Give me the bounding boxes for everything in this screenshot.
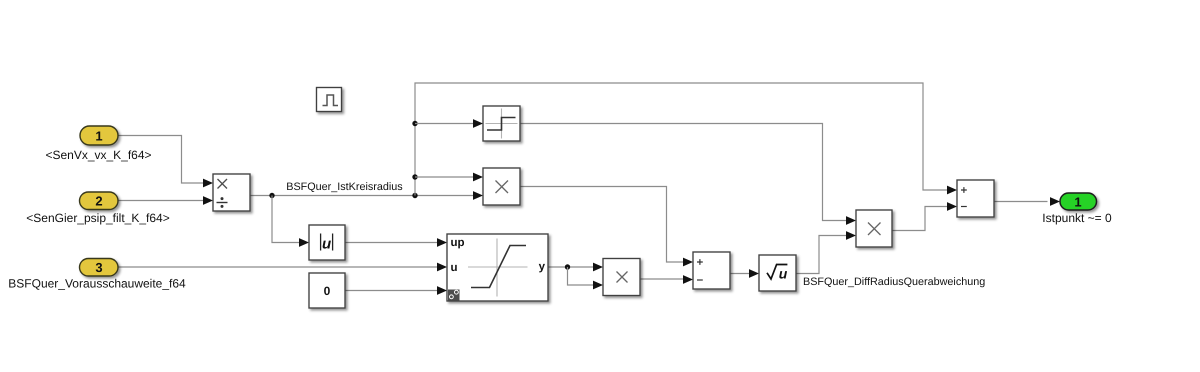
inport 3 (80, 259, 119, 277)
svg-text:1: 1 (95, 129, 102, 144)
outport 1 (1060, 193, 1097, 210)
wire: Abs output to Saturation Dynamic up input (345, 242, 438, 244)
sign block (483, 106, 520, 141)
arrowhead into Product3 lower input (846, 231, 856, 240)
arrowhead into Divide x input (203, 179, 213, 188)
svg-text:1: 1 (1074, 195, 1081, 210)
svg-text:u: u (451, 262, 458, 274)
arrowhead into Sqrt input (749, 269, 759, 278)
wire: branch to Product1 upper input (415, 176, 474, 178)
sqrt block (759, 255, 796, 291)
arrowhead into Sum1 plus input (683, 258, 693, 267)
svg-text:Istpunkt ~= 0: Istpunkt ~= 0 (1042, 211, 1112, 225)
pulse generator block (317, 88, 342, 112)
junction dot at x415 (412, 193, 417, 198)
wire: Product2 output to Sum1 minus input (640, 278, 684, 280)
arrowhead into Divide divide input (203, 196, 213, 205)
product2 block (squaring) (603, 259, 640, 296)
arrowhead into Outport1 (1050, 197, 1060, 206)
arrowhead into Sum1 minus input (683, 275, 693, 284)
wire: Sum1 output to Sqrt input (730, 273, 750, 275)
svg-text:3: 3 (95, 260, 102, 275)
wire: Inport3 to Saturation Dynamic u input (118, 266, 438, 268)
svg-text:u: u (322, 235, 331, 252)
junction dot at (415,123.5) (412, 121, 417, 126)
product3 block (856, 210, 892, 247)
wire: Sqrt output up to Product3 lower input (BSFQuer_DiffRadiusQuerabweichung) (796, 236, 847, 274)
svg-text:y: y (539, 261, 546, 273)
arrowhead into u input (437, 263, 447, 272)
wire: branch loop to Product2 lower input (568, 267, 594, 285)
wire: vertical from Product1 output down to Sum1 plus input (520, 187, 684, 263)
arrowhead into Sum2 plus input (947, 186, 957, 195)
inport 2 (80, 192, 119, 210)
abs block |u| (309, 225, 345, 260)
svg-text:BSFQuer_Vorausschauweite_f64: BSFQuer_Vorausschauweite_f64 (8, 277, 186, 291)
arrowhead into up input (437, 238, 447, 247)
wire: Sum2 output to Outport1 (994, 201, 1048, 203)
svg-text:0: 0 (324, 284, 331, 298)
svg-text:2: 2 (95, 194, 102, 209)
arrowhead into Sign input (473, 119, 483, 128)
junction dot at (567.5,267) (565, 264, 570, 269)
sum1 block (plus minus) (693, 252, 730, 289)
arrowhead into Product2 upper input (593, 263, 603, 272)
arrowhead into Abs input (299, 238, 309, 247)
arrowhead into lo input (437, 286, 447, 295)
wire: Constant 0 output to Saturation Dynamic lo input (345, 290, 438, 292)
arrowhead into Product2 lower input (593, 281, 603, 290)
wire: Saturation Dynamic y output to Product2 upper input (548, 266, 594, 268)
wire: Inport1 to Divide upper input (118, 136, 204, 184)
wire: branch down from x272 to Abs input (272, 196, 300, 243)
library link badge (448, 290, 460, 301)
junction dot at (415,177) (412, 174, 417, 179)
junction dot at x272 (269, 193, 274, 198)
svg-text:BSFQuer_DiffRadiusQuerabweichu: BSFQuer_DiffRadiusQuerabweichung (803, 276, 985, 288)
arrowhead into Product3 upper input (846, 216, 856, 225)
divide block U: x over divide (213, 174, 250, 211)
wire: vertical branch at x415 up and across top to Sum2 plus input (415, 83, 948, 196)
saturation icon axes (468, 239, 528, 297)
arrowhead into Sum2 minus input (947, 202, 957, 211)
saturation dynamic block (447, 234, 548, 301)
svg-text:up: up (451, 237, 465, 249)
saturation icon curve (471, 246, 526, 288)
wire: Sign output down to Product3 upper input (520, 124, 847, 221)
sum2 block (plus minus) (957, 180, 994, 217)
wire: Product3 output up to Sum2 minus input (892, 207, 948, 231)
constant 0 block (309, 273, 345, 308)
svg-text:<SenVx_vx_K_f64>: <SenVx_vx_K_f64> (45, 148, 151, 162)
product1 block (square of IstKreisradius) (483, 168, 520, 205)
arrowhead into Product1 lower input (473, 191, 483, 200)
svg-text:u: u (779, 266, 788, 282)
arrowhead into Product1 upper input (473, 173, 483, 182)
svg-text:BSFQuer_IstKreisradius: BSFQuer_IstKreisradius (286, 181, 403, 193)
svg-text:<SenGier_psip_filt_K_f64>: <SenGier_psip_filt_K_f64> (26, 211, 169, 225)
wire: branch to Sign input (415, 123, 474, 125)
inport 1 (80, 126, 118, 145)
wire: Inport2 to Divide lower input (118, 200, 204, 202)
wire: Divide output to Product1 lower input (signal BSFQuer_IstKreisradius) (250, 195, 474, 197)
